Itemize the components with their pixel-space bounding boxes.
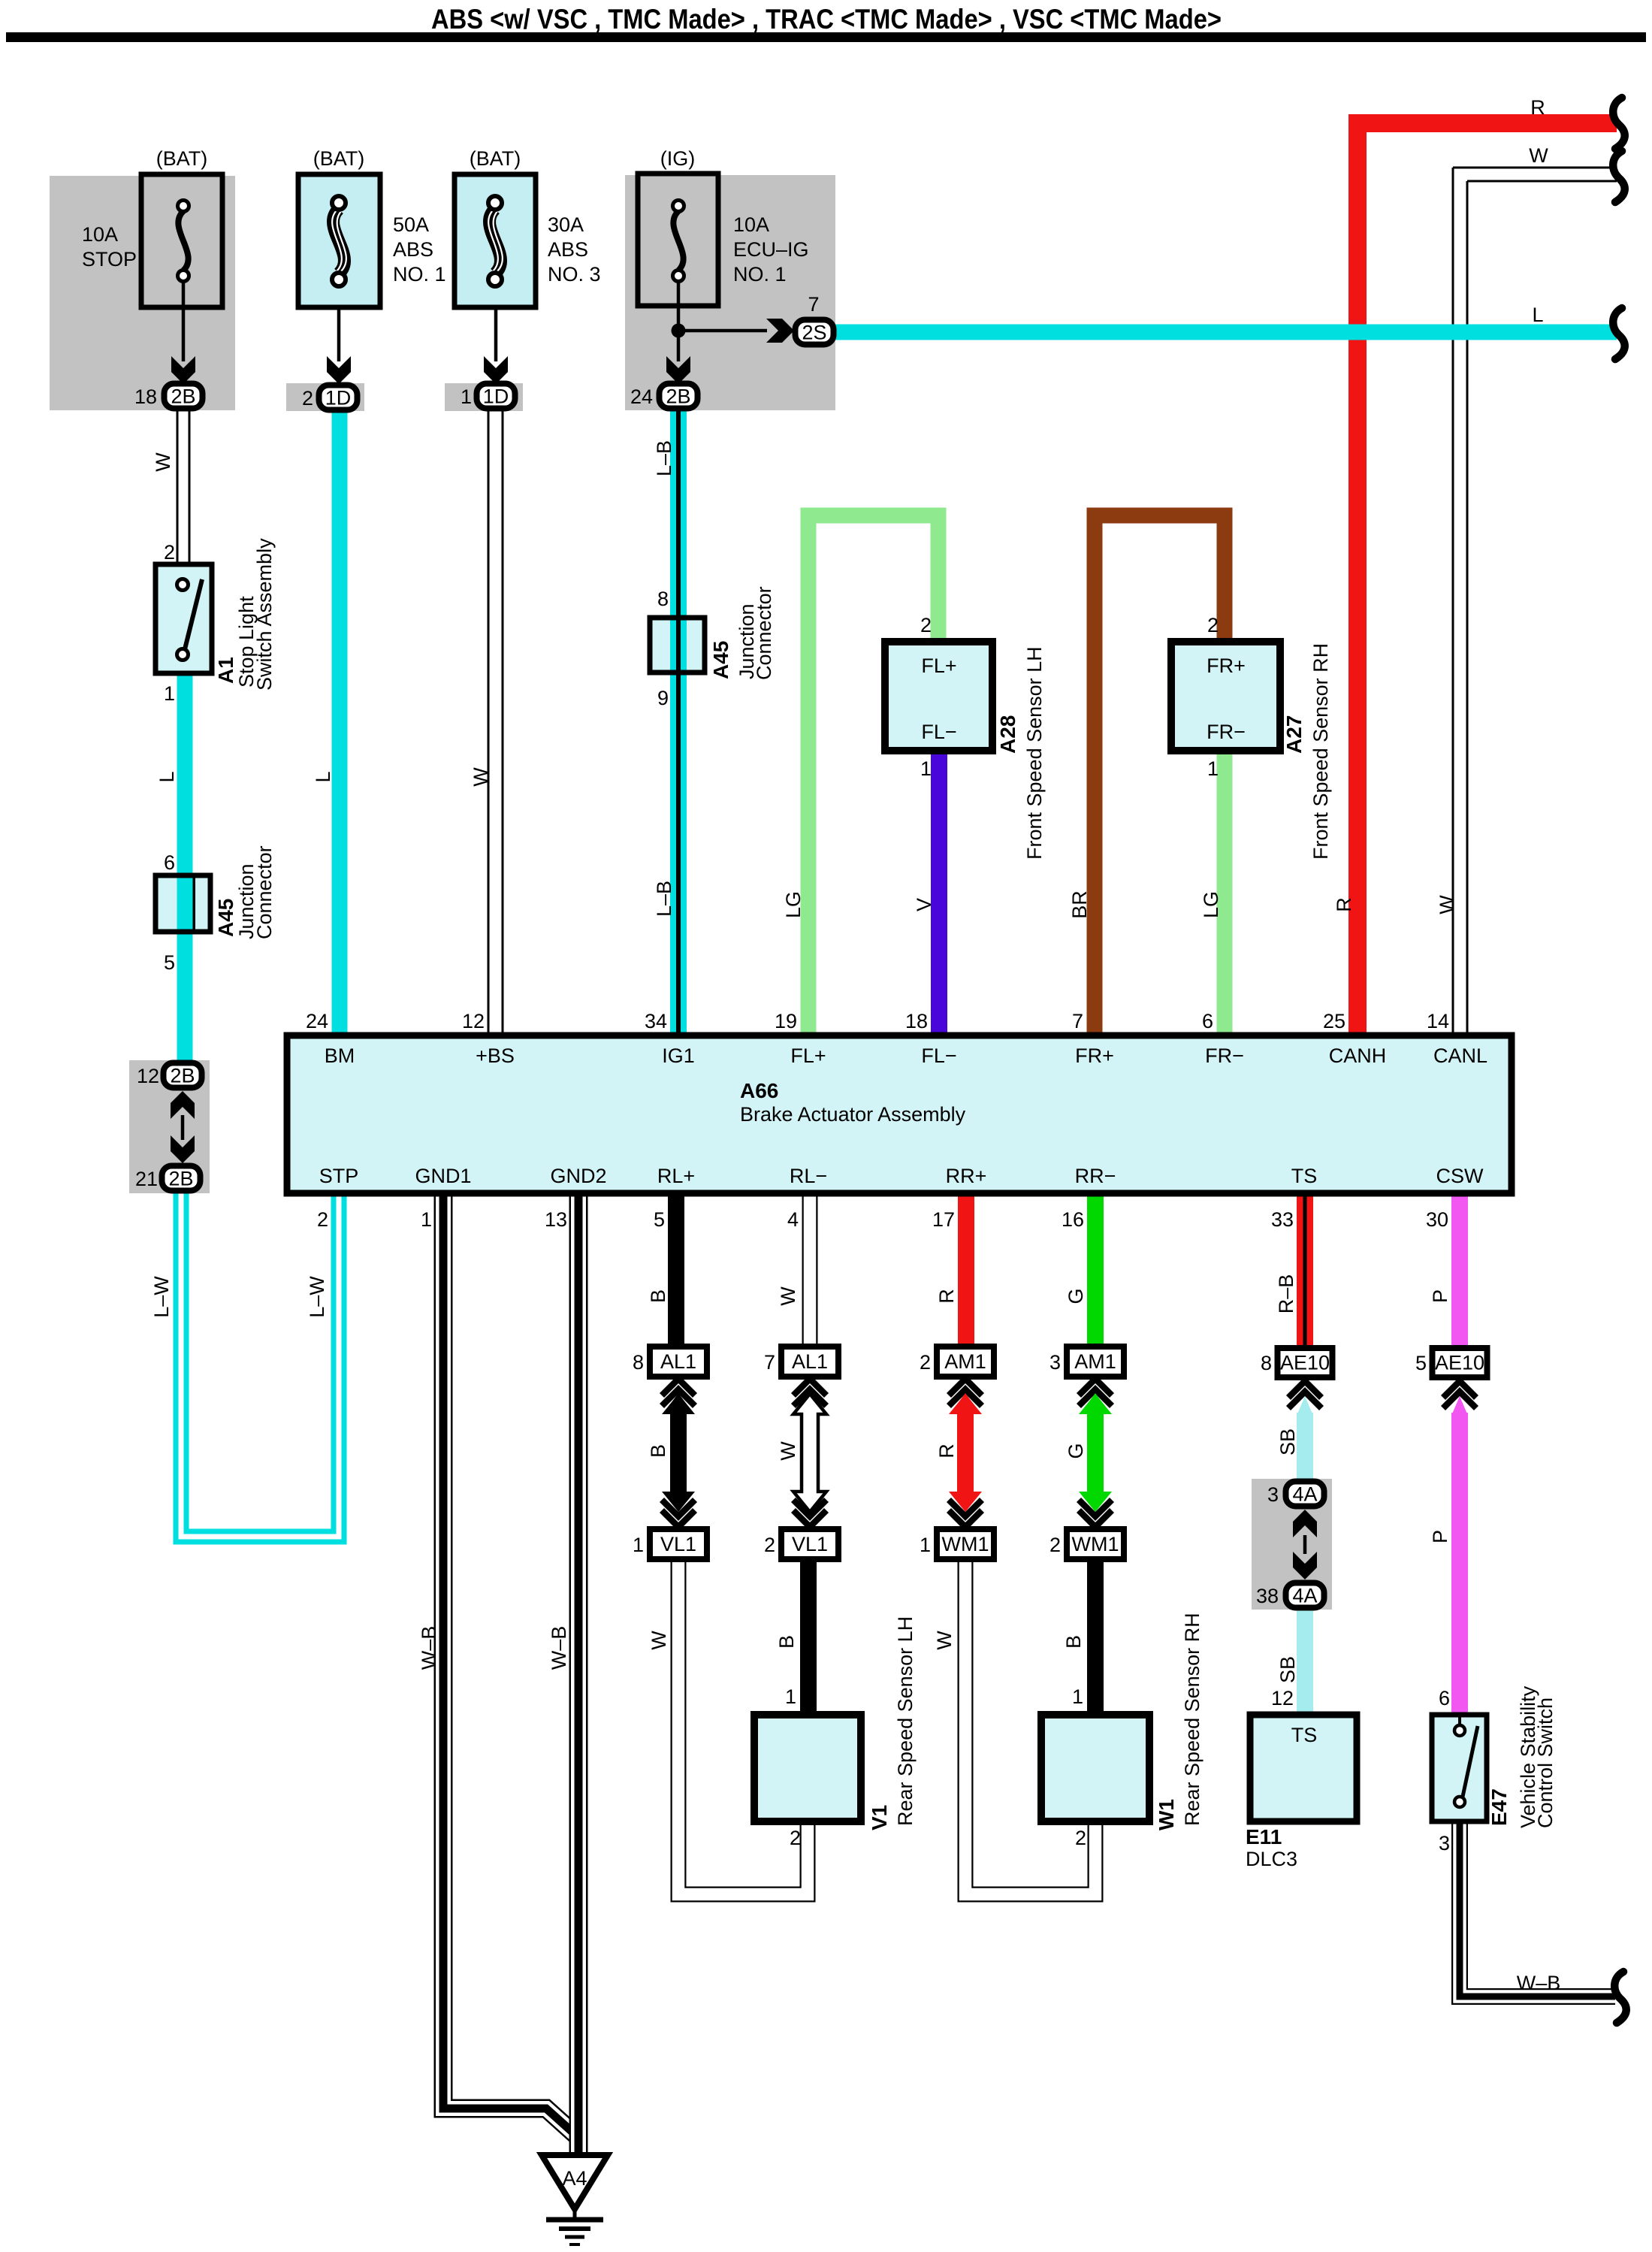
svg-text:L: L [312, 771, 334, 782]
svg-text:8: 8 [633, 1351, 644, 1374]
label A1 [214, 657, 237, 684]
svg-text:1D: 1D [483, 385, 509, 408]
svg-text:FR+: FR+ [1075, 1044, 1114, 1067]
svg-text:3: 3 [1267, 1483, 1279, 1506]
title text [431, 4, 1222, 35]
wire arrow 4A to 4A [1293, 1510, 1317, 1579]
arrowhead IG down [666, 356, 690, 384]
svg-text:A45: A45 [709, 641, 732, 679]
svg-text:VL1: VL1 [792, 1533, 828, 1555]
svg-text:2B: 2B [170, 1065, 195, 1087]
svg-text:50A: 50A [393, 213, 429, 236]
pin name RR- A66 bottom [1075, 1165, 1116, 1187]
pin 2 AM1 [920, 1351, 931, 1374]
label Junction Connector IG [735, 586, 775, 680]
wire arrow B AL1 to VL1 [662, 1379, 695, 1527]
svg-text:Front Speed Sensor RH: Front Speed Sensor RH [1309, 643, 1332, 860]
rear speed sensor W1 box [1041, 1715, 1149, 1821]
svg-text:Switch Assembly: Switch Assembly [253, 538, 276, 691]
svg-text:R: R [1530, 96, 1545, 119]
pin 18 A66 top [905, 1010, 928, 1032]
svg-text:P: P [1429, 1289, 1451, 1303]
connector 1D fuse 50A [319, 385, 358, 410]
svg-text:L: L [156, 771, 178, 782]
fuse 10A ECU-IG symbol [673, 201, 684, 282]
svg-text:W: W [470, 767, 492, 787]
wire L-W STP loop [181, 1192, 339, 1537]
label L-W right [306, 1276, 328, 1318]
svg-text:IG1: IG1 [662, 1044, 695, 1067]
svg-text:FR−: FR− [1207, 721, 1246, 743]
svg-text:17: 17 [932, 1208, 955, 1231]
svg-text:AE10: AE10 [1280, 1352, 1330, 1374]
pin 8 A45 IG [657, 588, 669, 610]
pin name FL+ A66 top [790, 1044, 826, 1067]
label W-B GND1 [418, 1626, 440, 1670]
svg-text:3: 3 [1439, 1832, 1450, 1854]
label G RR- [1065, 1288, 1087, 1304]
label P lower [1429, 1530, 1451, 1543]
fuse 50A ABS NO.1 box [298, 174, 380, 307]
pin 1 A66 bottom [421, 1208, 432, 1231]
pin 16 A66 bottom [1062, 1208, 1084, 1231]
pin 18 fuse STOP [134, 385, 157, 408]
label W-B GND2 [548, 1626, 570, 1670]
ground symbol [546, 2209, 603, 2244]
connector 2B fuse STOP [165, 384, 203, 409]
label L stop column [156, 771, 178, 782]
pin 7 AL1 [764, 1351, 775, 1374]
svg-text:FL+: FL+ [921, 654, 956, 677]
label 50A ABS NO.1 [393, 213, 446, 286]
wire BR A66 FR+ to A27 pin2 [1095, 515, 1225, 1035]
svg-text:2: 2 [317, 1208, 328, 1231]
pin 1 V1 [785, 1685, 796, 1708]
svg-text:30: 30 [1426, 1208, 1448, 1231]
svg-text:14: 14 [1427, 1010, 1449, 1032]
wire W-B GND2 to ground A4 [569, 1193, 588, 2158]
svg-text:LG: LG [1200, 891, 1222, 918]
svg-text:FL−: FL− [921, 1044, 956, 1067]
svg-text:TS: TS [1291, 1165, 1318, 1187]
svg-text:AM1: AM1 [944, 1350, 986, 1373]
label W stop column [152, 452, 174, 472]
svg-text:A27: A27 [1282, 715, 1306, 754]
pin 1 A28 [920, 757, 932, 780]
svg-text:AL1: AL1 [792, 1350, 828, 1373]
connector 4A(3) [1286, 1482, 1324, 1507]
gray background fuse STOP [50, 176, 235, 410]
wire arrow W AL1 to VL1 [793, 1379, 826, 1527]
pin 12 connector 2B [137, 1065, 159, 1087]
label G RR- mid [1065, 1443, 1087, 1459]
svg-text:L–B: L–B [653, 881, 675, 917]
pin name RR+ A66 bottom [946, 1165, 987, 1187]
label Vehicle Stability Control Switch [1517, 1685, 1557, 1828]
label A45 stop [214, 899, 237, 937]
switch A1 contacts [177, 579, 203, 660]
label B below WM1 [1062, 1635, 1085, 1649]
pin 2 W1 wire label [1075, 1827, 1086, 1849]
wire L-B through A45 IG [670, 618, 687, 673]
label W below VL1 [648, 1631, 670, 1650]
svg-text:12: 12 [462, 1010, 485, 1032]
wire break W-B [1614, 1972, 1626, 2023]
svg-text:1: 1 [633, 1534, 644, 1556]
wire L through A45 stop [177, 875, 193, 932]
pin 1 fuse 30A [461, 385, 472, 408]
label R RR+ mid [935, 1443, 958, 1459]
wire arrow G AM1 to WM1 [1079, 1379, 1112, 1527]
pin 2 fuse 50A [302, 387, 313, 410]
svg-text:2: 2 [1075, 1827, 1086, 1849]
svg-text:2B: 2B [168, 1168, 193, 1190]
svg-text:NO. 3: NO. 3 [548, 263, 601, 286]
fuse 30A symbol [488, 196, 503, 286]
fuse 50A symbol [332, 196, 346, 286]
svg-text:1D: 1D [325, 387, 352, 410]
label L BM column [312, 771, 334, 782]
svg-text:RL+: RL+ [657, 1165, 695, 1187]
svg-text:6: 6 [1439, 1687, 1450, 1709]
DLC3 E11 box [1250, 1715, 1357, 1821]
label A28 [996, 715, 1019, 754]
svg-text:6: 6 [1202, 1010, 1213, 1032]
label A66 [740, 1079, 778, 1102]
wire L A45 to connector 2B(12) [177, 932, 193, 1063]
wire R-B A66 TS to AE10 [1297, 1193, 1313, 1348]
pin 33 A66 bottom [1271, 1208, 1294, 1231]
connector AM1(3) [1067, 1347, 1124, 1377]
pin 1 W1 [1072, 1685, 1083, 1708]
svg-text:ABS: ABS [393, 238, 433, 261]
label SB upper [1276, 1428, 1299, 1455]
svg-text:P: P [1429, 1530, 1451, 1543]
pin 1 A27 [1207, 757, 1219, 780]
svg-text:NO. 1: NO. 1 [393, 263, 446, 286]
label R top [1530, 96, 1545, 119]
wire break L [1613, 308, 1625, 359]
svg-text:19: 19 [775, 1010, 797, 1032]
ground A4 triangle [542, 2155, 608, 2209]
pin name FL- A66 top [921, 1044, 956, 1067]
label LG FL+ [782, 891, 805, 918]
svg-text:W: W [777, 1286, 799, 1306]
pin 7 A66 top [1072, 1010, 1083, 1032]
svg-text:1: 1 [461, 385, 472, 408]
pin 2 WM1 [1049, 1534, 1061, 1556]
pin name IG1 A66 top [662, 1044, 695, 1067]
svg-text:R: R [935, 1443, 958, 1459]
label FL+ in A28 [921, 654, 956, 677]
svg-text:12: 12 [137, 1065, 159, 1087]
wire fuse ECU-IG to junction [677, 279, 681, 361]
pin 8 AL1 [633, 1351, 644, 1374]
svg-text:7: 7 [1072, 1010, 1083, 1032]
brake actuator A66 box [287, 1035, 1512, 1193]
svg-text:ECU–IG: ECU–IG [733, 238, 809, 261]
label Rear Speed Sensor LH [894, 1616, 917, 1826]
pin name CANL A66 top [1433, 1044, 1487, 1067]
connector AE10(5) [1433, 1348, 1487, 1377]
svg-text:2: 2 [1049, 1534, 1061, 1556]
svg-text:A1: A1 [214, 657, 237, 684]
svg-text:DLC3: DLC3 [1246, 1848, 1297, 1870]
svg-text:W: W [152, 452, 174, 472]
label DLC3 [1246, 1848, 1297, 1870]
label W top [1529, 144, 1548, 167]
svg-text:FR−: FR− [1205, 1044, 1244, 1067]
svg-text:R: R [935, 1289, 958, 1304]
connector AE10(8) [1278, 1348, 1333, 1377]
label (IG) fuse ECU-IG [660, 147, 696, 170]
svg-text:CANH: CANH [1329, 1044, 1387, 1067]
label W1 [1155, 1799, 1178, 1830]
pin 1 A1 [164, 682, 175, 705]
svg-text:SB: SB [1276, 1656, 1299, 1683]
label Front Speed Sensor RH [1309, 643, 1332, 860]
svg-text:AL1: AL1 [660, 1350, 696, 1373]
label FR- in A27 [1207, 721, 1246, 743]
svg-text:(BAT): (BAT) [470, 147, 521, 170]
pin 3 AM1 [1049, 1351, 1061, 1374]
junction connector A45 stop box [156, 875, 210, 932]
svg-text:2: 2 [164, 541, 175, 564]
wire break R [1613, 98, 1625, 149]
svg-text:6: 6 [164, 851, 175, 874]
label Stop Light Switch Assembly [235, 538, 276, 691]
wire L fuse ABS NO.1 to A66 BM [332, 411, 348, 1035]
fuse 10A ECU-IG NO.1 box [638, 174, 718, 306]
wire SB 4A to E11 TS [1297, 1608, 1313, 1715]
label R RR+ [935, 1289, 958, 1304]
label B below VL1 [775, 1635, 798, 1649]
wire W-B GND1 to ground [443, 1193, 575, 2135]
svg-text:B: B [1062, 1635, 1085, 1649]
pin 30 A66 bottom [1426, 1208, 1448, 1231]
svg-text:SB: SB [1276, 1428, 1299, 1455]
connector 2S [796, 320, 834, 345]
label W RL- [777, 1286, 799, 1306]
pin name TS A66 bottom [1291, 1165, 1318, 1187]
connector WM1(1) [937, 1529, 994, 1559]
svg-text:B: B [647, 1289, 669, 1303]
svg-text:(BAT): (BAT) [156, 147, 208, 170]
svg-text:1: 1 [785, 1685, 796, 1708]
svg-text:W–B: W–B [548, 1626, 570, 1670]
svg-text:7: 7 [808, 293, 819, 316]
svg-text:TS: TS [1291, 1724, 1318, 1746]
connector AL1(7) [781, 1347, 838, 1377]
wire B VL1 to V1 pin1 [800, 1559, 817, 1715]
connector 4A(38) [1286, 1583, 1324, 1608]
wire W VL1 to V1 pin2 [678, 1559, 808, 1894]
wire L (cyan) from 2S to right edge [835, 325, 1617, 340]
svg-text:A66: A66 [740, 1079, 778, 1102]
svg-text:W–B: W–B [1517, 1972, 1561, 1994]
svg-text:Control Switch: Control Switch [1534, 1697, 1557, 1828]
svg-text:18: 18 [134, 385, 157, 408]
svg-text:BR: BR [1068, 890, 1091, 919]
svg-text:BM: BM [325, 1044, 355, 1067]
wire W A66 RL- to AL1 [802, 1193, 818, 1347]
label BR FR+ [1068, 890, 1091, 919]
label TS in E11 [1291, 1724, 1318, 1746]
wire entry P below AE10(5) [1443, 1381, 1476, 1416]
svg-text:STOP: STOP [82, 248, 137, 271]
svg-text:7: 7 [764, 1351, 775, 1374]
label Front Speed Sensor LH [1023, 646, 1046, 860]
pin 4 A66 bottom [787, 1208, 799, 1231]
switch A1 box [156, 564, 212, 673]
svg-text:Connector: Connector [253, 845, 276, 939]
pin name CSW A66 bottom [1436, 1165, 1484, 1187]
label B RL+ mid [647, 1444, 669, 1458]
svg-text:(IG): (IG) [660, 147, 696, 170]
wire LG A27 pin1 to A66 FR- [1217, 748, 1233, 1035]
pin 8 AE10 [1261, 1352, 1272, 1374]
svg-text:FR+: FR+ [1207, 654, 1246, 677]
pin 6 A45 stop [164, 851, 175, 874]
svg-text:1: 1 [1207, 757, 1219, 780]
svg-text:W: W [777, 1441, 799, 1461]
wire fuse ABS NO.3 to connector 1D [494, 284, 498, 361]
label 10A ECU-IG NO.1 [733, 213, 809, 286]
svg-text:21: 21 [135, 1168, 158, 1190]
gray background fuse ECU-IG [625, 175, 835, 410]
pin 2 A1 [164, 541, 175, 564]
speed sensor A28 box [885, 642, 992, 751]
svg-text:L: L [1532, 304, 1543, 326]
svg-text:Rear Speed Sensor RH: Rear Speed Sensor RH [1181, 1613, 1204, 1826]
svg-text:(BAT): (BAT) [313, 147, 365, 170]
pin name +BS A66 top [476, 1044, 515, 1067]
svg-text:13: 13 [545, 1208, 567, 1231]
pin 1 VL1 [633, 1534, 644, 1556]
svg-text:1: 1 [164, 682, 175, 705]
svg-text:G: G [1065, 1443, 1087, 1459]
svg-text:AE10: AE10 [1435, 1352, 1484, 1374]
pin 14 A66 top [1427, 1010, 1449, 1032]
pin 2 V1 wire label [790, 1827, 801, 1849]
pin 19 A66 top [775, 1010, 797, 1032]
label L-B lower [653, 881, 675, 917]
svg-text:1: 1 [920, 757, 932, 780]
connector 2B(12) [164, 1063, 202, 1088]
wire P AE10 to E47 [1451, 1413, 1468, 1715]
label LG FR- [1200, 891, 1222, 918]
wire L A1 pin1 to A45 [177, 673, 193, 875]
label W RL- mid [777, 1441, 799, 1461]
gray background connectors 4A pair [1252, 1479, 1332, 1610]
label (BAT) fuse 30A [470, 147, 521, 170]
pin 6 A66 top [1202, 1010, 1213, 1032]
svg-text:33: 33 [1271, 1208, 1294, 1231]
label E47 [1487, 1788, 1511, 1826]
svg-text:ABS: ABS [548, 238, 588, 261]
label P upper [1429, 1289, 1451, 1303]
label B RL+ [647, 1289, 669, 1303]
svg-text:W1: W1 [1155, 1799, 1178, 1830]
rear speed sensor V1 box [754, 1715, 861, 1821]
pin 2 A27 [1207, 614, 1219, 636]
connector VL1(1) [650, 1529, 707, 1559]
pin name FR+ A66 top [1075, 1044, 1114, 1067]
svg-text:RR+: RR+ [946, 1165, 987, 1187]
junction connector A45 IG box [650, 618, 705, 673]
label Junction Connector stop [235, 845, 276, 939]
svg-text:2: 2 [920, 614, 932, 636]
svg-text:Connector: Connector [753, 586, 775, 680]
svg-text:5: 5 [1415, 1352, 1427, 1374]
svg-text:R: R [1333, 897, 1355, 912]
title rule [6, 32, 1646, 42]
svg-text:2: 2 [1207, 614, 1219, 636]
label 10A STOP [82, 223, 137, 271]
pin 5 A45 stop [164, 951, 175, 974]
wire W WM1 to W1 pin2 [965, 1559, 1095, 1894]
pin 9 A45 IG [657, 687, 669, 709]
svg-text:5: 5 [164, 951, 175, 974]
svg-text:25: 25 [1323, 1010, 1345, 1032]
label L-B upper [653, 440, 675, 476]
pin 6 E47 [1439, 1687, 1450, 1709]
connector 2B(21) [162, 1166, 201, 1191]
arrow between 2B connectors [171, 1091, 195, 1163]
label W +BS column [470, 767, 492, 787]
label SB lower [1276, 1656, 1299, 1683]
pin 38 connector 4A [1256, 1585, 1279, 1607]
connector 1D fuse 30A [477, 384, 515, 409]
svg-text:8: 8 [657, 588, 669, 610]
svg-text:L–W: L–W [306, 1276, 328, 1318]
connector VL1(2) [781, 1529, 838, 1559]
svg-text:G: G [1065, 1288, 1087, 1304]
wire W fuse ABS NO.3 to A66 +BS [488, 410, 503, 1035]
svg-text:Front Speed Sensor LH: Front Speed Sensor LH [1023, 646, 1046, 860]
svg-text:WM1: WM1 [942, 1533, 989, 1555]
label V FL- [913, 898, 935, 911]
svg-text:W: W [648, 1631, 670, 1650]
switch E47 contacts [1454, 1715, 1478, 1807]
pin 2 A28 [920, 614, 932, 636]
svg-text:2: 2 [920, 1351, 931, 1374]
pin name GND2 A66 bottom [550, 1165, 606, 1187]
svg-text:V: V [913, 898, 935, 911]
wire fuse STOP to connector 2B [182, 280, 186, 361]
label R CANH [1333, 897, 1355, 912]
label A45 IG [709, 641, 732, 679]
wire R A66 RR+ to AM1 [958, 1193, 974, 1347]
label 30A ABS NO.3 [548, 213, 601, 286]
svg-text:1: 1 [421, 1208, 432, 1231]
junction connector A45 stop border [156, 875, 210, 932]
pin 2 VL1 [764, 1534, 775, 1556]
pin name RL+ A66 bottom [657, 1165, 695, 1187]
wire W stop fuse to A1 pin2 [177, 410, 189, 564]
fuse 30A ABS NO.3 box [455, 174, 536, 307]
svg-text:1: 1 [920, 1534, 931, 1556]
svg-text:9: 9 [657, 687, 669, 709]
svg-text:LG: LG [782, 891, 805, 918]
svg-text:B: B [647, 1444, 669, 1458]
svg-text:FL+: FL+ [790, 1044, 826, 1067]
svg-text:16: 16 [1062, 1208, 1084, 1231]
svg-text:2B: 2B [171, 385, 195, 408]
connector 2B fuse ECU-IG [660, 384, 698, 409]
svg-text:W: W [1436, 895, 1458, 914]
wire break W [1613, 151, 1625, 202]
